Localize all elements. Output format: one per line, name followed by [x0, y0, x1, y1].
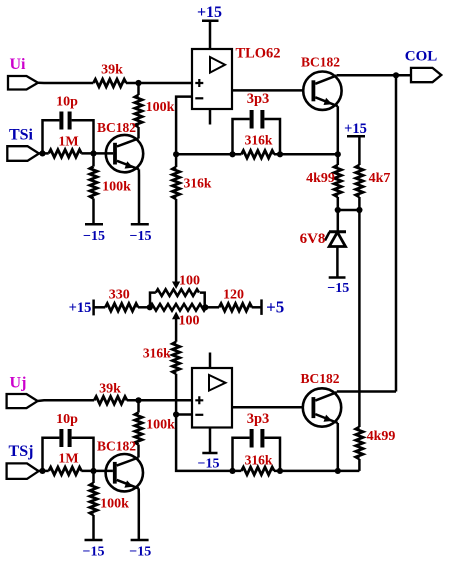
power -15 (R4) — [83, 224, 105, 244]
wire R8 to P1 — [138, 306, 150, 309]
svg-text:BC182: BC182 — [97, 439, 136, 454]
svg-text:+15: +15 — [197, 4, 222, 21]
resistor R9 316k — [172, 154, 212, 289]
wire R14 to Q3 base — [81, 470, 113, 473]
svg-text:10p: 10p — [56, 95, 78, 110]
connector Ui (input) — [8, 56, 38, 90]
svg-text:COL: COL — [405, 49, 438, 65]
wire U1 output to Q2 base — [232, 89, 312, 92]
wire R3 to Q1 base — [81, 152, 113, 155]
svg-text:TLO62: TLO62 — [235, 46, 280, 62]
wire U2 - input to node N — [176, 413, 192, 416]
svg-text:−15: −15 — [130, 229, 152, 244]
resistor R3 1M — [49, 135, 82, 158]
wire Q1 emitter to -15 — [138, 169, 141, 223]
wire R1 to U1 + input — [126, 82, 192, 85]
resistor R10 316k — [143, 312, 180, 415]
svg-text:39k: 39k — [101, 63, 123, 78]
node J junction — [202, 304, 208, 310]
wire R12 to U2 + input — [127, 399, 192, 402]
op-amp U1 TLO62 (top) — [192, 46, 281, 125]
svg-text:316k: 316k — [184, 176, 212, 191]
wire U1 - input to feedback node — [176, 97, 192, 155]
svg-text:1M: 1M — [58, 452, 78, 467]
svg-text:BC182: BC182 — [97, 120, 136, 135]
wire COL bus down right side — [395, 75, 398, 391]
node E junction — [335, 151, 341, 157]
capacitor C2 3p3 — [233, 91, 281, 154]
wire Q3 emitter to -15 — [137, 488, 140, 540]
svg-text:100k: 100k — [146, 418, 175, 433]
svg-text:−15: −15 — [83, 229, 105, 244]
svg-text:100k: 100k — [102, 180, 131, 195]
junction C2 right — [277, 151, 283, 157]
svg-text:BC182: BC182 — [301, 55, 340, 70]
node G junction — [335, 207, 341, 213]
capacitor C3 10p — [43, 412, 94, 471]
svg-text:Uj: Uj — [10, 375, 27, 392]
svg-text:6V8: 6V8 — [300, 231, 326, 247]
svg-text:−15: −15 — [198, 457, 220, 472]
node A junction — [135, 80, 141, 86]
svg-text:TSi: TSi — [9, 127, 34, 144]
wire node D to C2/R5 — [176, 153, 241, 156]
wire node N to feedback rail — [176, 415, 241, 471]
svg-text:−15: −15 — [327, 281, 349, 296]
wire node H down to R17 — [358, 210, 361, 427]
power -15 (Q1 emitter) — [130, 224, 152, 244]
power +5 — [262, 298, 285, 317]
wire U2 output to Q4 base — [232, 406, 312, 409]
svg-text:39k: 39k — [99, 382, 121, 397]
svg-text:100: 100 — [179, 274, 200, 289]
svg-text:100k: 100k — [146, 100, 175, 115]
svg-text:4k99: 4k99 — [306, 171, 335, 186]
node C junction — [90, 150, 96, 156]
node L junction — [39, 468, 49, 474]
resistor R12 39k — [94, 382, 127, 405]
resistor R5 316k — [241, 133, 274, 159]
node D junction — [173, 151, 179, 157]
capacitor C4 3p3 — [233, 411, 281, 471]
resistor R13 100k — [135, 400, 175, 457]
node F junction — [393, 72, 399, 78]
transistor Q2 BC182 — [301, 55, 342, 110]
wire Q2 collector to COL — [337, 74, 411, 77]
wire node G to H — [338, 209, 360, 212]
connector Uj (input) — [7, 375, 38, 409]
svg-text:TSj: TSj — [9, 443, 34, 460]
node M junction — [90, 468, 96, 474]
resistor R17 4k99 — [356, 427, 396, 471]
svg-text:120: 120 — [223, 288, 244, 303]
transistor Q1 BC182 — [97, 120, 143, 172]
resistor R6 4k99 — [306, 154, 341, 210]
resistor R7 4k7 — [356, 165, 391, 210]
svg-text:Ui: Ui — [10, 56, 27, 73]
node P junction — [335, 468, 341, 474]
svg-text:316k: 316k — [245, 453, 273, 468]
resistor R15 100k — [90, 471, 129, 540]
resistor R11 120 — [205, 288, 261, 312]
zener diode D1 6V8 — [300, 210, 346, 278]
potentiometer P1 bottom 100 — [150, 304, 206, 329]
wire Q4 emitter to rail — [337, 423, 340, 471]
op-amp U2 (TL062 second half) — [192, 353, 232, 428]
connector TSi (input) — [7, 127, 39, 161]
wire Q4 collector to COL bus — [337, 390, 396, 393]
svg-text:1M: 1M — [58, 135, 78, 150]
power -15 (Q3 emitter) — [129, 540, 151, 560]
resistor R8 330 — [105, 288, 138, 312]
junction C4 right — [277, 468, 283, 474]
wire rail to node P — [274, 470, 359, 473]
svg-text:+15: +15 — [69, 300, 92, 316]
resistor R2 100k — [135, 83, 175, 139]
resistor R16 316k — [241, 453, 274, 475]
svg-text:4k99: 4k99 — [367, 429, 396, 444]
junction C2 left — [229, 151, 235, 157]
junction C4 left — [229, 468, 235, 474]
svg-text:316k: 316k — [143, 346, 171, 361]
resistor R1 39k — [93, 63, 126, 87]
potentiometer P1 top 100 — [150, 274, 205, 308]
svg-text:−15: −15 — [83, 545, 105, 560]
svg-text:4k7: 4k7 — [369, 171, 391, 186]
wire R5 to node E — [274, 153, 338, 156]
svg-text:330: 330 — [109, 288, 130, 303]
capacitor C1 10p — [43, 95, 94, 154]
svg-text:+5: +5 — [266, 298, 284, 317]
node N junction — [173, 411, 179, 417]
power -15 (R15) — [83, 540, 105, 560]
svg-text:100k: 100k — [100, 497, 129, 512]
resistor R14 1M — [49, 452, 82, 475]
svg-text:−15: −15 — [129, 545, 151, 560]
connector TSj (input) — [7, 443, 39, 479]
node I junction — [147, 304, 153, 310]
svg-text:3p3: 3p3 — [247, 411, 270, 427]
wire Uj to R12 — [38, 399, 95, 402]
svg-text:+15: +15 — [344, 121, 367, 137]
connector COL (output) — [405, 49, 442, 83]
resistor R4 100k — [90, 153, 131, 224]
wire Ui to R1 — [38, 82, 93, 85]
power -15 (U2 V-) — [198, 428, 220, 472]
transistor Q3 BC182 — [97, 439, 143, 492]
svg-text:BC182: BC182 — [300, 371, 339, 386]
power -15 (D1) — [327, 278, 349, 297]
power +15 (R8) — [69, 300, 106, 317]
svg-text:3p3: 3p3 — [247, 91, 270, 107]
power +15 supply (op-amp U1 V+) — [197, 4, 222, 49]
node B junction — [39, 150, 49, 156]
transistor Q4 BC182 — [300, 371, 341, 427]
svg-text:100: 100 — [179, 314, 200, 329]
svg-text:316k: 316k — [245, 133, 273, 148]
node H junction — [356, 207, 362, 213]
power +15 (R7) — [344, 121, 367, 165]
svg-text:10p: 10p — [56, 412, 78, 427]
node K junction — [135, 397, 141, 403]
wire Q2 emitter to node E — [337, 106, 340, 154]
